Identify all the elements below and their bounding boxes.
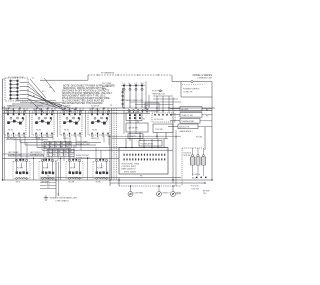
svg-text:PU OR BK: PU OR BK xyxy=(63,105,72,107)
svg-text:DLB RY: DLB RY xyxy=(130,136,137,138)
svg-text:MODEL & SERIES: MODEL & SERIES xyxy=(193,75,213,77)
svg-text:BU WH: BU WH xyxy=(69,182,75,184)
svg-text:SELECTOR: SELECTOR xyxy=(179,126,190,128)
svg-text:YL: YL xyxy=(67,147,69,149)
svg-text:TN BK: TN BK xyxy=(35,138,41,140)
svg-text:PU WH BU: PU WH BU xyxy=(35,105,44,107)
svg-text:CONV FAN: CONV FAN xyxy=(134,191,144,194)
svg-text:YL: YL xyxy=(48,151,50,153)
svg-text:YL: YL xyxy=(48,155,50,157)
svg-text:LEFT REAR: LEFT REAR xyxy=(8,151,19,154)
svg-text:INF SW RF: INF SW RF xyxy=(62,110,73,112)
svg-text:SURFACE UNIT: SURFACE UNIT xyxy=(76,143,91,146)
svg-text:DOOR LK: DOOR LK xyxy=(184,152,192,154)
svg-text:TOD SW: TOD SW xyxy=(155,129,163,131)
svg-text:BU RD GY: BU RD GY xyxy=(7,105,16,107)
svg-text:J3: J3 xyxy=(60,105,62,107)
svg-text:SURFACE UNIT: SURFACE UNIT xyxy=(30,153,45,156)
svg-text:PU RD: PU RD xyxy=(43,167,49,169)
svg-text:INF SW RR: INF SW RR xyxy=(90,110,101,112)
svg-text:P10: P10 xyxy=(203,193,206,195)
svg-text:P6: P6 xyxy=(140,176,142,178)
svg-text:GY WH OR: GY WH OR xyxy=(91,105,100,107)
svg-text:P9 HARNESS: P9 HARNESS xyxy=(101,72,115,75)
svg-text:TN OR: TN OR xyxy=(70,167,76,169)
svg-text:CDE8000 CDE: CDE8000 CDE xyxy=(197,78,212,80)
svg-text:K1: K1 xyxy=(143,119,145,121)
svg-text:H1 H2: H1 H2 xyxy=(92,130,97,132)
svg-text:P5 POWER: P5 POWER xyxy=(152,91,163,93)
svg-text:LATCH SW: LATCH SW xyxy=(128,127,138,130)
svg-text:P5 TRANSFORMER 120V: P5 TRANSFORMER 120V xyxy=(122,99,144,102)
svg-text:P7 DOOR: P7 DOOR xyxy=(191,185,199,187)
svg-text:SURFACE UNIT: SURFACE UNIT xyxy=(8,153,23,156)
svg-text:SURFACE UNITS RATED 240V: SURFACE UNITS RATED 240V xyxy=(50,197,78,200)
svg-text:BK-WH-RD: BK-WH-RD xyxy=(102,86,112,88)
svg-text:BK WH: BK WH xyxy=(7,138,13,140)
svg-text:RD: RD xyxy=(42,91,45,93)
svg-text:PU WH: PU WH xyxy=(17,167,23,169)
svg-text:TERM BLOCK: TERM BLOCK xyxy=(152,94,166,96)
svg-text:MTR SW: MTR SW xyxy=(184,155,191,157)
svg-text:H1 H2: H1 H2 xyxy=(8,130,13,132)
svg-text:WH PU: WH PU xyxy=(91,138,97,140)
svg-text:RIGHT REAR: RIGHT REAR xyxy=(76,141,88,144)
svg-text:P1 CONNECTOR: P1 CONNECTOR xyxy=(8,77,24,79)
svg-text:BR EL: BR EL xyxy=(176,192,181,194)
svg-text:H1 H2: H1 H2 xyxy=(36,130,41,132)
svg-text:LOCK SW: LOCK SW xyxy=(191,188,199,190)
svg-text:P13 BK: P13 BK xyxy=(196,137,203,139)
svg-text:RECONNECTED PER THIS DIAGRAM.: RECONNECTED PER THIS DIAGRAM. xyxy=(62,102,103,105)
svg-text:WH GY: WH GY xyxy=(63,138,70,140)
svg-text:BK WH: BK WH xyxy=(203,190,210,192)
svg-text:J6 J7: J6 J7 xyxy=(102,89,106,91)
svg-text:H1 H2: H1 H2 xyxy=(64,130,69,132)
svg-text:THERMOSTAT: THERMOSTAT xyxy=(181,120,195,123)
svg-text:YL: YL xyxy=(56,143,58,145)
svg-text:BK: BK xyxy=(33,95,36,97)
svg-text:J2: J2 xyxy=(30,102,32,104)
svg-text:POWER SUPPLY: POWER SUPPLY xyxy=(183,88,200,90)
svg-text:TN BK: TN BK xyxy=(96,182,102,184)
svg-text:P4: P4 xyxy=(110,105,112,107)
svg-text:YL: YL xyxy=(56,147,58,149)
svg-text:TN YL: TN YL xyxy=(16,182,21,184)
svg-text:P4 CLOCK: P4 CLOCK xyxy=(154,119,164,121)
svg-text:RLY: RLY xyxy=(147,105,151,107)
svg-text:BROIL 3400W: BROIL 3400W xyxy=(124,172,136,174)
svg-text:( BAKE-BROIL ): ( BAKE-BROIL ) xyxy=(179,130,193,133)
svg-text:CONTROL (ERC): CONTROL (ERC) xyxy=(122,166,137,168)
svg-text:J1: J1 xyxy=(32,78,35,80)
svg-text:( SEE CHART ): ( SEE CHART ) xyxy=(56,200,70,203)
svg-text:PU WH: PU WH xyxy=(97,167,103,169)
svg-text:ELECTRONIC OVEN: ELECTRONIC OVEN xyxy=(122,163,140,165)
svg-text:P12 CONN: P12 CONN xyxy=(102,83,112,85)
svg-text:CORD P8: CORD P8 xyxy=(183,91,193,93)
svg-text:P7 LATCH: P7 LATCH xyxy=(192,173,201,176)
svg-text:OVEN LT: OVEN LT xyxy=(162,192,170,194)
svg-text:SURFACE UNIT: SURFACE UNIT xyxy=(76,156,91,159)
svg-text:OVEN LT SW: OVEN LT SW xyxy=(181,115,193,117)
svg-text:HI-LIMIT: HI-LIMIT xyxy=(181,109,189,111)
svg-text:RD: RD xyxy=(206,116,209,118)
svg-text:BAKE 2600W P2: BAKE 2600W P2 xyxy=(122,168,136,171)
